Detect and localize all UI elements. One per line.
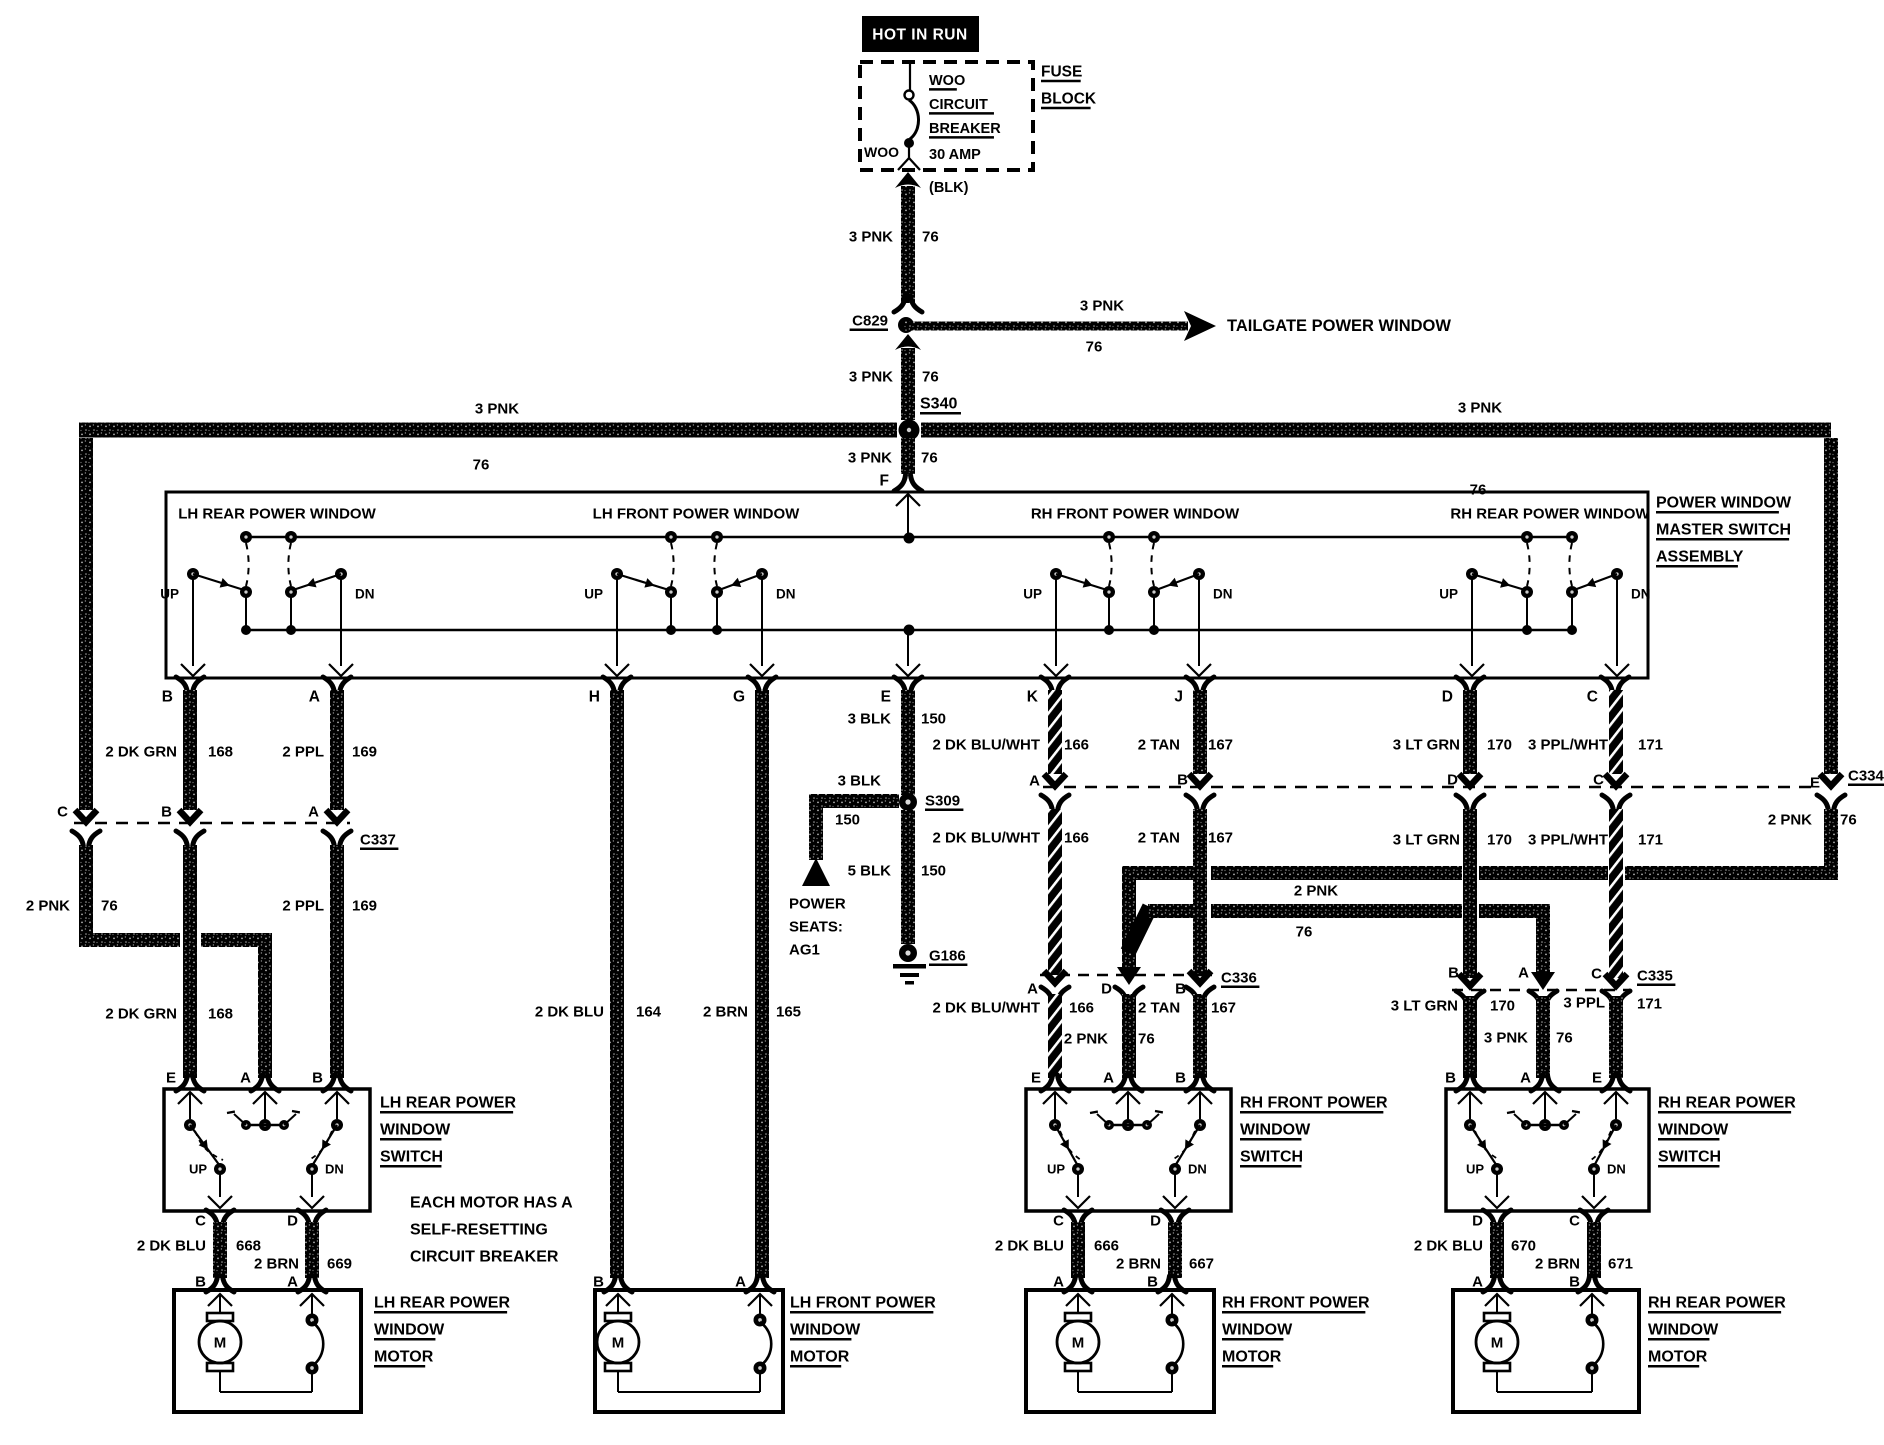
svg-text:150: 150 xyxy=(921,711,946,728)
ground G186 xyxy=(893,944,967,985)
svg-text:2 PPL: 2 PPL xyxy=(282,744,324,761)
wire 2 DK BLU 164 master H to LH front motor xyxy=(535,690,662,1278)
svg-text:UP: UP xyxy=(584,587,603,602)
splice S309 xyxy=(899,793,963,812)
svg-text:LH FRONT POWER WINDOW: LH FRONT POWER WINDOW xyxy=(593,506,800,523)
svg-text:SWITCH: SWITCH xyxy=(1658,1149,1721,1166)
svg-text:76: 76 xyxy=(1086,339,1103,356)
svg-text:AG1: AG1 xyxy=(789,942,820,959)
svg-text:3 PNK: 3 PNK xyxy=(849,229,893,246)
svg-text:CIRCUIT: CIRCUIT xyxy=(929,97,988,113)
svg-text:76: 76 xyxy=(922,369,939,386)
POWER WINDOW MASTER SWITCH ASSEMBLY label xyxy=(1656,495,1792,567)
svg-text:DN: DN xyxy=(1607,1162,1626,1177)
LH front power window motor xyxy=(593,1274,783,1413)
svg-text:170: 170 xyxy=(1490,998,1515,1015)
svg-text:76: 76 xyxy=(921,450,938,467)
svg-text:DN: DN xyxy=(355,587,375,602)
svg-text:ASSEMBLY: ASSEMBLY xyxy=(1656,549,1744,566)
svg-text:C: C xyxy=(1053,1213,1064,1230)
svg-text:E: E xyxy=(1810,775,1820,792)
svg-text:FUSE: FUSE xyxy=(1041,64,1082,81)
fuse block box xyxy=(860,62,1033,170)
splice S340 and main 3 PNK bus xyxy=(79,396,1831,441)
wire 3 LT GRN 170 C335 to RH rear switch B xyxy=(1391,996,1515,1078)
FUSE BLOCK label xyxy=(1041,64,1097,108)
svg-text:3 PPL: 3 PPL xyxy=(1563,995,1605,1012)
svg-text:3 LT GRN: 3 LT GRN xyxy=(1391,998,1458,1015)
master switch section LH REAR POWER WINDOW xyxy=(160,506,376,677)
LH REAR POWER WINDOW SWITCH label xyxy=(380,1095,516,1167)
svg-text:LH REAR POWER: LH REAR POWER xyxy=(374,1295,510,1312)
svg-text:WINDOW: WINDOW xyxy=(1240,1122,1311,1139)
svg-text:B: B xyxy=(1177,772,1188,789)
svg-text:C337: C337 xyxy=(360,832,396,849)
svg-text:3 PPL/WHT: 3 PPL/WHT xyxy=(1528,737,1608,754)
svg-text:DN: DN xyxy=(1213,587,1233,602)
wire 2 TAN 167 C334 to C336 xyxy=(1138,809,1233,975)
svg-text:WINDOW: WINDOW xyxy=(1648,1322,1719,1339)
wire 3 PPL 171 C335 to RH rear switch E xyxy=(1563,995,1662,1079)
svg-text:2 TAN: 2 TAN xyxy=(1138,830,1180,847)
svg-text:76: 76 xyxy=(1470,482,1487,499)
svg-text:166: 166 xyxy=(1064,737,1089,754)
svg-text:SELF-RESETTING: SELF-RESETTING xyxy=(410,1222,548,1239)
svg-text:666: 666 xyxy=(1094,1238,1119,1255)
svg-text:2 BRN: 2 BRN xyxy=(703,1004,748,1021)
svg-text:2 BRN: 2 BRN xyxy=(1116,1256,1161,1273)
svg-text:A: A xyxy=(240,1070,251,1087)
svg-text:A: A xyxy=(1103,1070,1114,1087)
svg-text:2 DK BLU: 2 DK BLU xyxy=(1414,1238,1483,1255)
svg-text:SWITCH: SWITCH xyxy=(380,1149,443,1166)
svg-text:76: 76 xyxy=(922,229,939,246)
wire 2 DK BLU/WHT 166 C336 to RH front switch E xyxy=(933,994,1095,1078)
wire 2 BRN 667 switch D to motor B xyxy=(1116,1222,1214,1278)
svg-text:76: 76 xyxy=(101,898,118,915)
wire 3 PNK 76 C335 to RH rear switch A xyxy=(1484,996,1573,1078)
svg-text:B: B xyxy=(1445,1070,1456,1087)
wire 2 PNK 76 C337 to LH rear switch A xyxy=(26,845,272,1078)
svg-text:A: A xyxy=(1518,965,1529,982)
svg-text:C334: C334 xyxy=(1848,768,1884,785)
svg-text:DN: DN xyxy=(776,587,796,602)
svg-text:5 BLK: 5 BLK xyxy=(848,863,892,880)
RH front power window switch xyxy=(1026,1070,1231,1230)
wire 2 DK BLU/WHT 166 master K to C334 xyxy=(933,690,1090,774)
POWER SEATS AG1 label xyxy=(789,896,846,959)
svg-text:2 PNK: 2 PNK xyxy=(1768,812,1812,829)
svg-text:F: F xyxy=(880,473,889,490)
svg-text:A: A xyxy=(308,804,319,821)
wire 3 BLK 150 master E to S309 xyxy=(848,690,946,795)
svg-text:E: E xyxy=(166,1070,176,1087)
svg-text:CIRCUIT BREAKER: CIRCUIT BREAKER xyxy=(410,1249,559,1266)
svg-text:171: 171 xyxy=(1638,832,1663,849)
RH REAR POWER WINDOW MOTOR label xyxy=(1648,1295,1786,1367)
svg-text:WINDOW: WINDOW xyxy=(380,1122,451,1139)
svg-text:169: 169 xyxy=(352,744,377,761)
svg-text:668: 668 xyxy=(236,1238,261,1255)
svg-text:A: A xyxy=(735,1274,746,1291)
svg-text:DN: DN xyxy=(1188,1162,1207,1177)
RH FRONT POWER WINDOW MOTOR label xyxy=(1222,1295,1370,1367)
wire 2 PNK 76 C336 to RH front switch A xyxy=(1064,994,1155,1078)
svg-text:A: A xyxy=(1053,1274,1064,1291)
master switch section RH REAR POWER WINDOW xyxy=(1439,506,1650,677)
wire 2 BRN 669 switch D to motor A xyxy=(254,1222,352,1278)
svg-text:150: 150 xyxy=(835,812,860,829)
svg-text:E: E xyxy=(881,689,891,706)
svg-text:670: 670 xyxy=(1511,1238,1536,1255)
svg-text:E: E xyxy=(1031,1070,1041,1087)
wire 2 PNK 76 branch to RH rear switch xyxy=(1128,904,1550,976)
svg-text:3 LT GRN: 3 LT GRN xyxy=(1393,832,1460,849)
svg-text:3 BLK: 3 BLK xyxy=(838,773,882,790)
connector C334 xyxy=(1029,768,1884,812)
svg-text:2 TAN: 2 TAN xyxy=(1138,737,1180,754)
wire 2 TAN 167 master J to C334 xyxy=(1138,690,1233,774)
svg-text:3 PNK: 3 PNK xyxy=(848,450,892,467)
wire 2 PPL 169 master A to C337 xyxy=(282,690,377,810)
svg-text:167: 167 xyxy=(1208,737,1233,754)
svg-text:MOTOR: MOTOR xyxy=(1222,1349,1282,1366)
svg-text:3 LT GRN: 3 LT GRN xyxy=(1393,737,1460,754)
svg-text:3 PNK: 3 PNK xyxy=(1080,298,1124,315)
svg-text:171: 171 xyxy=(1637,996,1662,1013)
svg-text:166: 166 xyxy=(1069,1000,1094,1017)
svg-text:G: G xyxy=(733,689,745,706)
svg-text:D: D xyxy=(1472,1213,1483,1230)
svg-text:K: K xyxy=(1027,689,1039,706)
svg-text:M: M xyxy=(1491,1335,1504,1352)
svg-text:2 DK BLU: 2 DK BLU xyxy=(137,1238,206,1255)
svg-text:A: A xyxy=(1520,1070,1531,1087)
wire 3 PNK 76 fuse block to C829 xyxy=(849,172,939,303)
wire 2 BRN 165 master G to LH front motor xyxy=(703,690,801,1278)
svg-text:2 PNK: 2 PNK xyxy=(1294,883,1338,900)
svg-text:2 TAN: 2 TAN xyxy=(1138,1000,1180,1017)
svg-text:76: 76 xyxy=(1840,812,1857,829)
svg-text:C: C xyxy=(57,804,68,821)
svg-text:150: 150 xyxy=(921,863,946,880)
svg-text:G186: G186 xyxy=(929,948,966,965)
svg-text:HOT IN RUN: HOT IN RUN xyxy=(872,27,967,44)
svg-text:C: C xyxy=(1587,689,1598,706)
svg-text:2 DK BLU/WHT: 2 DK BLU/WHT xyxy=(933,1000,1041,1017)
svg-text:RH FRONT POWER: RH FRONT POWER xyxy=(1222,1295,1370,1312)
pin F feed line to top bus xyxy=(896,494,920,544)
svg-text:165: 165 xyxy=(776,1004,801,1021)
svg-text:2 DK BLU: 2 DK BLU xyxy=(995,1238,1064,1255)
svg-text:B: B xyxy=(1147,1274,1158,1291)
wire 2 BRN 671 switch C to motor B xyxy=(1535,1222,1633,1278)
svg-text:B: B xyxy=(1175,1070,1186,1087)
pin E ground line from bottom bus xyxy=(896,625,920,677)
label 3 PNK 76 right bus xyxy=(1458,400,1502,499)
svg-text:76: 76 xyxy=(1556,1030,1573,1047)
svg-text:C829: C829 xyxy=(852,313,888,330)
svg-text:B: B xyxy=(1569,1274,1580,1291)
power window master switch assembly box xyxy=(166,492,1648,678)
svg-text:(BLK): (BLK) xyxy=(929,180,969,196)
svg-text:A: A xyxy=(1472,1274,1483,1291)
svg-text:671: 671 xyxy=(1608,1256,1633,1273)
svg-text:UP: UP xyxy=(1023,587,1042,602)
svg-text:2 PNK: 2 PNK xyxy=(1064,1031,1108,1048)
svg-text:RH REAR POWER WINDOW: RH REAR POWER WINDOW xyxy=(1450,506,1650,523)
svg-text:UP: UP xyxy=(1439,587,1458,602)
svg-text:3 PPL/WHT: 3 PPL/WHT xyxy=(1528,832,1608,849)
wire 2 TAN 167 C336 to RH front switch B xyxy=(1138,994,1236,1078)
wire 2 DK BLU 668 switch C to motor B xyxy=(137,1222,261,1278)
svg-text:M: M xyxy=(612,1335,625,1352)
connector C335 xyxy=(1448,965,1675,1008)
svg-text:B: B xyxy=(162,689,173,706)
wire 3 PPL/WHT 171 master C to C334 xyxy=(1528,690,1663,774)
svg-text:3 PNK: 3 PNK xyxy=(1458,400,1502,417)
svg-text:A: A xyxy=(1029,773,1040,790)
wire 2 PNK 76 left bus down to C337 xyxy=(79,438,93,810)
fuse block labels xyxy=(929,73,1001,163)
svg-text:MASTER SWITCH: MASTER SWITCH xyxy=(1656,522,1791,539)
svg-text:TAILGATE POWER WINDOW: TAILGATE POWER WINDOW xyxy=(1227,317,1451,335)
connector C336 xyxy=(1027,967,1259,1003)
svg-text:167: 167 xyxy=(1211,1000,1236,1017)
svg-text:3 PNK: 3 PNK xyxy=(1484,1030,1528,1047)
svg-text:RH REAR POWER: RH REAR POWER xyxy=(1658,1095,1796,1112)
wire 2 DK GRN 168 C337 to LH rear switch E xyxy=(105,845,233,1078)
svg-text:171: 171 xyxy=(1638,737,1663,754)
svg-text:C: C xyxy=(1569,1213,1580,1230)
svg-text:170: 170 xyxy=(1487,737,1512,754)
svg-text:168: 168 xyxy=(208,1006,233,1023)
svg-text:B: B xyxy=(195,1274,206,1291)
svg-text:D: D xyxy=(1447,772,1458,789)
wire 3 PNK 76 to tailgate power window xyxy=(903,298,1216,356)
svg-text:169: 169 xyxy=(352,898,377,915)
svg-text:MOTOR: MOTOR xyxy=(374,1349,434,1366)
RH rear power window switch xyxy=(1445,1070,1649,1230)
svg-text:B: B xyxy=(161,804,172,821)
connector C337 xyxy=(57,804,398,849)
wire 3 PPL/WHT 171 C334 to C335 xyxy=(1528,809,1663,978)
svg-text:SEATS:: SEATS: xyxy=(789,919,843,936)
LH REAR POWER WINDOW MOTOR label xyxy=(374,1295,510,1367)
svg-text:MOTOR: MOTOR xyxy=(790,1349,850,1366)
svg-text:POWER: POWER xyxy=(789,896,846,913)
master switch bottom bus xyxy=(248,629,1570,632)
svg-text:2 BRN: 2 BRN xyxy=(254,1256,299,1273)
svg-text:D: D xyxy=(1442,689,1453,706)
svg-text:MOTOR: MOTOR xyxy=(1648,1349,1708,1366)
svg-text:2 DK BLU/WHT: 2 DK BLU/WHT xyxy=(933,737,1041,754)
svg-text:2 PPL: 2 PPL xyxy=(282,898,324,915)
svg-text:164: 164 xyxy=(636,1004,662,1021)
wire 2 DK BLU 670 switch D to motor A xyxy=(1414,1222,1536,1278)
wire 3 PNK 76 right bus down to C334 E xyxy=(1824,438,1838,774)
svg-text:BREAKER: BREAKER xyxy=(929,121,1001,137)
svg-text:RH FRONT POWER WINDOW: RH FRONT POWER WINDOW xyxy=(1031,506,1240,523)
svg-text:A: A xyxy=(287,1274,298,1291)
svg-text:669: 669 xyxy=(327,1256,352,1273)
svg-text:76: 76 xyxy=(473,457,490,474)
master switch top bus xyxy=(246,536,1572,539)
svg-text:UP: UP xyxy=(189,1162,207,1177)
svg-text:C: C xyxy=(1593,772,1604,789)
svg-text:30 AMP: 30 AMP xyxy=(929,147,981,163)
svg-text:WINDOW: WINDOW xyxy=(790,1322,861,1339)
RH FRONT POWER WINDOW SWITCH label xyxy=(1240,1095,1388,1167)
svg-text:WOO: WOO xyxy=(929,73,965,89)
svg-text:LH REAR POWER: LH REAR POWER xyxy=(380,1095,516,1112)
svg-text:DN: DN xyxy=(325,1162,344,1177)
svg-text:S309: S309 xyxy=(925,793,960,810)
wire 3 LT GRN 170 master D to C334 xyxy=(1393,690,1512,774)
svg-text:170: 170 xyxy=(1487,832,1512,849)
power seats AG1 off-page triangle xyxy=(802,858,830,886)
svg-text:2 DK BLU/WHT: 2 DK BLU/WHT xyxy=(933,830,1041,847)
svg-text:168: 168 xyxy=(208,744,233,761)
svg-text:C: C xyxy=(1591,966,1602,983)
wire 5 BLK 150 S309 to G186 xyxy=(848,810,946,944)
circuit breaker WOO 30 AMP xyxy=(898,63,920,170)
wire 3 PNK 76 S340 to master switch pin F xyxy=(848,438,938,491)
RH front power window motor xyxy=(1026,1274,1214,1413)
LH rear power window motor xyxy=(174,1274,361,1413)
svg-text:3 PNK: 3 PNK xyxy=(475,401,519,418)
svg-text:RH REAR POWER: RH REAR POWER xyxy=(1648,1295,1786,1312)
RH rear power window motor xyxy=(1453,1274,1639,1413)
master switch section LH FRONT POWER WINDOW xyxy=(584,506,800,677)
svg-text:2 PNK: 2 PNK xyxy=(26,898,70,915)
svg-text:167: 167 xyxy=(1208,830,1233,847)
master switch section RH FRONT POWER WINDOW xyxy=(1023,506,1240,677)
svg-text:A: A xyxy=(1027,981,1038,998)
svg-text:BLOCK: BLOCK xyxy=(1041,91,1097,108)
RH REAR POWER WINDOW SWITCH label xyxy=(1658,1095,1796,1167)
svg-text:D: D xyxy=(287,1213,298,1230)
wire 3 LT GRN 170 C334 to C335 xyxy=(1393,809,1512,978)
svg-text:SWITCH: SWITCH xyxy=(1240,1149,1303,1166)
svg-text:B: B xyxy=(312,1070,323,1087)
svg-text:C: C xyxy=(195,1213,206,1230)
svg-text:DN: DN xyxy=(1631,587,1651,602)
svg-text:2 DK GRN: 2 DK GRN xyxy=(105,1006,177,1023)
svg-text:2 DK GRN: 2 DK GRN xyxy=(105,744,177,761)
svg-text:166: 166 xyxy=(1064,830,1089,847)
svg-text:D: D xyxy=(1101,981,1112,998)
svg-text:WINDOW: WINDOW xyxy=(1658,1122,1729,1139)
svg-text:M: M xyxy=(214,1335,227,1352)
svg-text:S340: S340 xyxy=(920,396,957,413)
LH rear power window switch xyxy=(164,1070,370,1230)
EACH MOTOR note xyxy=(410,1195,573,1266)
connector C829 xyxy=(850,296,922,333)
svg-text:B: B xyxy=(1448,965,1459,982)
master switch pin letters xyxy=(162,677,1629,706)
svg-text:76: 76 xyxy=(1296,924,1313,941)
svg-text:C335: C335 xyxy=(1637,968,1673,985)
wire 3 BLK 150 branch to power seats xyxy=(809,773,899,861)
svg-text:UP: UP xyxy=(1047,1162,1065,1177)
wire 2 PPL 169 C337 to LH rear switch B xyxy=(282,845,377,1078)
wire 3 PNK 76 C829 to S340 xyxy=(849,334,939,420)
svg-text:C336: C336 xyxy=(1221,970,1257,987)
LH FRONT POWER WINDOW MOTOR label xyxy=(790,1295,936,1367)
svg-text:667: 667 xyxy=(1189,1256,1214,1273)
label 3 PNK 76 left bus xyxy=(473,401,520,474)
HOT IN RUN tag xyxy=(862,16,979,52)
svg-text:J: J xyxy=(1174,689,1183,706)
svg-text:WINDOW: WINDOW xyxy=(1222,1322,1293,1339)
svg-text:A: A xyxy=(309,689,320,706)
svg-text:2 DK BLU: 2 DK BLU xyxy=(535,1004,604,1021)
svg-text:UP: UP xyxy=(1466,1162,1484,1177)
svg-text:M: M xyxy=(1072,1335,1085,1352)
svg-text:76: 76 xyxy=(1138,1031,1155,1048)
svg-text:EACH MOTOR HAS A: EACH MOTOR HAS A xyxy=(410,1195,573,1212)
svg-text:POWER WINDOW: POWER WINDOW xyxy=(1656,495,1792,512)
svg-text:H: H xyxy=(589,689,600,706)
svg-text:2 BRN: 2 BRN xyxy=(1535,1256,1580,1273)
svg-text:LH REAR POWER WINDOW: LH REAR POWER WINDOW xyxy=(178,506,376,523)
svg-text:E: E xyxy=(1592,1070,1602,1087)
wire 2 PNK 76 C334 E down and across to switches xyxy=(1122,809,1857,970)
svg-text:3 PNK: 3 PNK xyxy=(849,369,893,386)
svg-text:RH FRONT POWER: RH FRONT POWER xyxy=(1240,1095,1388,1112)
svg-text:D: D xyxy=(1150,1213,1161,1230)
svg-text:3 BLK: 3 BLK xyxy=(848,711,892,728)
wire 2 DK GRN 168 master B to C337 xyxy=(105,690,233,810)
wire 2 DK BLU/WHT 166 C334 to C336 xyxy=(933,809,1090,975)
svg-text:WINDOW: WINDOW xyxy=(374,1322,445,1339)
svg-text:WOO: WOO xyxy=(864,144,899,160)
wire 2 DK BLU 666 switch C to motor A xyxy=(995,1222,1119,1278)
svg-text:LH FRONT POWER: LH FRONT POWER xyxy=(790,1295,936,1312)
svg-text:B: B xyxy=(593,1274,604,1291)
svg-text:UP: UP xyxy=(160,587,179,602)
